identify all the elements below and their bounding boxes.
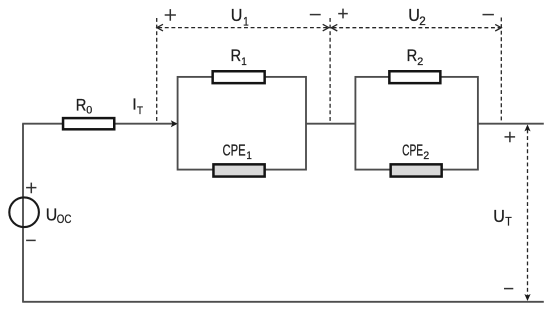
svg-text:T: T: [137, 105, 143, 117]
dashed measurement vertical at node B (between blocks): [329, 18, 331, 123]
wire: middle connector between block 1 and block 2: [306, 123, 355, 125]
plus sign U1: [165, 9, 176, 21]
svg-text:1: 1: [241, 56, 247, 68]
label U_OC: [46, 204, 72, 226]
svg-text:U: U: [493, 206, 505, 226]
resistor R0 box: [63, 118, 114, 129]
dashed dimension line U1: [158, 27, 327, 29]
label R2: [407, 47, 424, 68]
minus sign UT: [504, 288, 513, 290]
arrow UT bottom (down): [524, 294, 530, 301]
svg-text:T: T: [505, 216, 512, 228]
dashed measurement vertical at node A (left of block1): [156, 18, 158, 123]
svg-text:2: 2: [417, 56, 423, 68]
arrowhead I_T on main wire: [171, 120, 178, 127]
arrow U1 left: [157, 24, 163, 31]
arrow U2 left: [331, 24, 337, 31]
wire: block 2 loop (R2 parallel CPE2): [355, 77, 478, 170]
svg-text:CPE: CPE: [402, 143, 423, 160]
svg-text:1: 1: [243, 15, 249, 29]
svg-text:U: U: [46, 204, 58, 224]
arrow UT top (up): [524, 124, 530, 131]
svg-text:OC: OC: [57, 214, 72, 226]
svg-text:I: I: [132, 97, 136, 114]
wire: output wire right of block 2: [478, 123, 544, 125]
arrow U1 right: [323, 24, 329, 31]
wire: block 1 loop (R1 parallel CPE1): [178, 77, 306, 170]
arrow U2 right: [495, 24, 501, 31]
dashed measurement vertical at node C (right of block2): [500, 18, 502, 123]
capacitor CPE2 box: [391, 164, 442, 176]
dashed measurement line UT vertical: [527, 130, 529, 297]
svg-text:R: R: [231, 47, 242, 65]
label CPE1: [223, 143, 252, 163]
wire: main horizontal from left corner to I_T arrow: [22, 123, 176, 125]
svg-text:1: 1: [246, 150, 252, 162]
minus sign U2: [483, 14, 494, 16]
svg-text:2: 2: [423, 150, 429, 162]
plus sign U2: [338, 9, 348, 19]
label R1: [231, 47, 247, 68]
label I_T current: [132, 97, 143, 118]
svg-text:CPE: CPE: [223, 143, 246, 160]
minus sign U1: [310, 14, 321, 16]
svg-text:0: 0: [86, 105, 92, 117]
label R0: [76, 96, 93, 116]
svg-text:2: 2: [419, 14, 426, 28]
wire: left vertical from main node down through source to bottom: [22, 124, 24, 302]
voltage source U_OC circle: [9, 197, 39, 227]
svg-text:R: R: [76, 96, 87, 114]
plus sign UT: [505, 132, 516, 142]
capacitor CPE1 box: [213, 164, 264, 176]
svg-text:U: U: [408, 5, 420, 25]
svg-text:R: R: [407, 47, 418, 65]
dashed dimension line U2: [333, 27, 500, 29]
resistor R2 box: [389, 71, 440, 83]
U_OC plus sign: [26, 183, 36, 194]
label U1: [231, 5, 249, 29]
wire: bottom horizontal: [22, 301, 544, 303]
label U2: [408, 5, 426, 28]
U_OC minus sign: [26, 239, 36, 241]
label UT: [493, 206, 512, 228]
resistor R1 box: [213, 71, 265, 83]
svg-text:U: U: [231, 5, 243, 25]
label CPE2: [402, 143, 429, 162]
